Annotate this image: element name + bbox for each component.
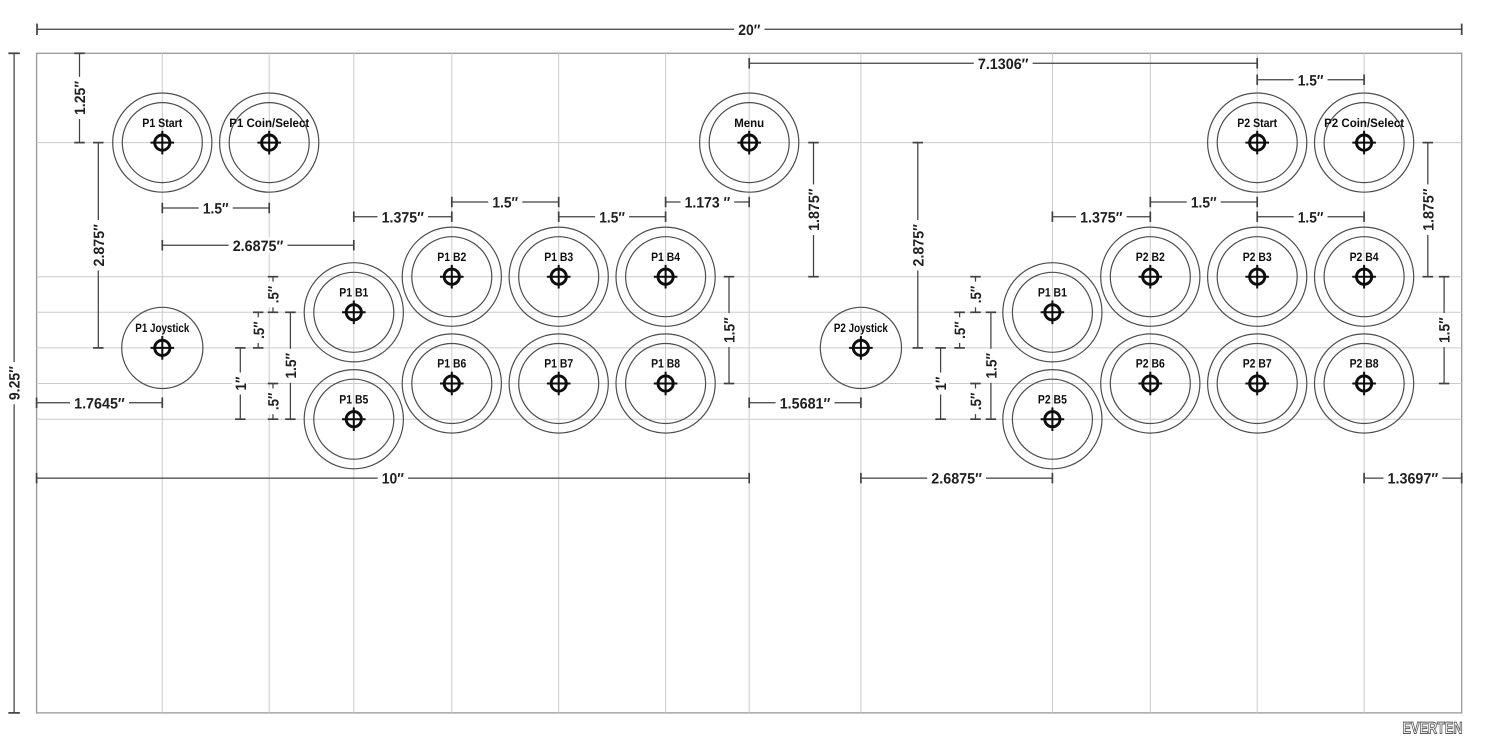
svg-text:1.173 ″: 1.173 ″: [685, 195, 731, 212]
svg-text:1.5″: 1.5″: [1437, 317, 1454, 343]
svg-text:1.5″: 1.5″: [722, 317, 739, 343]
svg-text:2.6875″: 2.6875″: [233, 238, 284, 255]
svg-text:P1 Start: P1 Start: [142, 116, 182, 130]
svg-text:P1 B8: P1 B8: [651, 357, 680, 371]
svg-text:1.5″: 1.5″: [283, 353, 300, 379]
svg-text:1.5″: 1.5″: [984, 353, 1001, 379]
svg-text:1.875″: 1.875″: [1420, 188, 1437, 230]
svg-text:7.1306″: 7.1306″: [978, 56, 1029, 73]
svg-text:.5″: .5″: [952, 321, 969, 339]
svg-text:EVERTEN: EVERTEN: [1403, 720, 1463, 738]
svg-text:P1 Joystick: P1 Joystick: [135, 321, 189, 335]
svg-text:P2 B8: P2 B8: [1350, 357, 1379, 371]
svg-text:1.5″: 1.5″: [203, 201, 229, 218]
svg-text:20″: 20″: [738, 22, 760, 39]
svg-text:P2 B4: P2 B4: [1350, 250, 1379, 264]
svg-text:9.25″: 9.25″: [7, 366, 24, 400]
svg-text:P1 B1: P1 B1: [1038, 286, 1067, 300]
svg-text:2.875″: 2.875″: [91, 224, 108, 266]
svg-text:.5″: .5″: [968, 286, 985, 304]
svg-text:1.5″: 1.5″: [1298, 72, 1324, 89]
svg-text:P2 Start: P2 Start: [1237, 116, 1277, 130]
svg-text:1.25″: 1.25″: [72, 81, 89, 115]
svg-text:.5″: .5″: [251, 321, 268, 339]
svg-text:.5″: .5″: [266, 393, 283, 411]
svg-text:P2 Coin/Select: P2 Coin/Select: [1324, 116, 1404, 130]
svg-text:P2 B6: P2 B6: [1136, 357, 1165, 371]
svg-text:.5″: .5″: [968, 393, 985, 411]
svg-text:2.875″: 2.875″: [910, 224, 927, 266]
svg-text:P2 Joystick: P2 Joystick: [834, 321, 888, 335]
svg-text:2.6875″: 2.6875″: [931, 471, 982, 488]
svg-text:P2 B7: P2 B7: [1243, 357, 1272, 371]
svg-text:1.7645″: 1.7645″: [74, 395, 125, 412]
svg-text:P2 B5: P2 B5: [1038, 392, 1067, 406]
svg-text:P1 B1: P1 B1: [339, 286, 368, 300]
svg-text:1.5″: 1.5″: [599, 209, 625, 226]
svg-text:P1 B5: P1 B5: [339, 392, 368, 406]
svg-text:P1 B2: P1 B2: [437, 250, 466, 264]
svg-text:10″: 10″: [382, 471, 404, 488]
svg-text:1.5″: 1.5″: [1298, 209, 1324, 226]
svg-text:P1 B6: P1 B6: [437, 357, 466, 371]
svg-text:P1 B7: P1 B7: [544, 357, 573, 371]
svg-text:P2 B3: P2 B3: [1243, 250, 1272, 264]
svg-text:Menu: Menu: [734, 116, 764, 130]
svg-text:P2 B2: P2 B2: [1136, 250, 1165, 264]
svg-text:P1 B4: P1 B4: [651, 250, 680, 264]
svg-text:1.375″: 1.375″: [382, 209, 424, 226]
svg-text:1″: 1″: [933, 377, 950, 391]
svg-text:1″: 1″: [233, 377, 250, 391]
svg-text:.5″: .5″: [266, 286, 283, 304]
svg-text:1.5″: 1.5″: [492, 195, 518, 212]
svg-text:1.3697″: 1.3697″: [1388, 471, 1439, 488]
svg-text:1.5″: 1.5″: [1191, 195, 1217, 212]
svg-text:P1 B3: P1 B3: [544, 250, 573, 264]
svg-text:1.5681″: 1.5681″: [780, 395, 831, 412]
svg-text:1.375″: 1.375″: [1080, 209, 1122, 226]
svg-text:P1 Coin/Select: P1 Coin/Select: [229, 116, 309, 130]
svg-text:1.875″: 1.875″: [806, 188, 823, 230]
